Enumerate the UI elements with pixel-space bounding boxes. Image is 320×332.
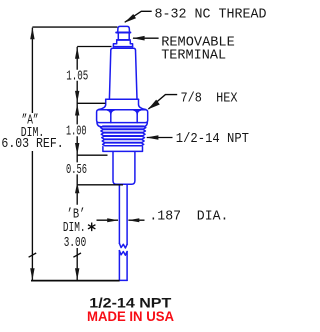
thread ridge 1	[101, 126, 146, 129]
svg-text:1.00: 1.00	[66, 124, 87, 140]
arrowhead B bottom	[75, 268, 79, 280]
rod lower right edge	[126, 252, 128, 281]
rod upper left edge	[118, 185, 120, 244]
B dimension vertical line	[76, 47, 78, 280]
arrowhead B top	[75, 182, 79, 193]
rod break zigzag lower	[119, 251, 127, 256]
rod upper right edge	[126, 185, 128, 245]
svg-text:6.03 REF.: 6.03 REF.	[1, 136, 63, 152]
A dimension vertical line	[31, 28, 33, 281]
extension line at terminal base y46.5	[77, 46, 111, 48]
bell flare left	[98, 99, 105, 109]
rod bottom edge	[119, 279, 127, 281]
arrowhead leader 8-32	[124, 14, 136, 23]
arrowhead .187 left	[107, 218, 118, 222]
extension line at hex seat y103	[77, 102, 105, 104]
svg-text:7/8 HEX: 7/8 HEX	[181, 91, 239, 107]
leader line 7/8 hex	[148, 95, 177, 109]
hex face line left	[110, 110, 112, 123]
svg-text:1.05: 1.05	[66, 69, 88, 85]
terminal lower ring	[113, 41, 132, 47]
arrowhead 1/2-14 npt	[146, 135, 158, 140]
svg-text:3.00: 3.00	[64, 235, 86, 251]
B dim break tick	[73, 253, 81, 257]
thread ridge 5	[102, 140, 144, 143]
arrowhead 7/8 hex	[148, 100, 160, 110]
thread ridge 2	[101, 130, 145, 133]
extension line top (A dim, terminal tip)	[32, 26, 117, 28]
A dim break tick	[29, 253, 37, 257]
hex face line right	[136, 110, 138, 123]
svg-text:MADE IN USA: MADE IN USA	[87, 308, 174, 324]
terminal cap bottom ring	[116, 32, 130, 34]
leader line .187 right	[128, 219, 144, 221]
arrowhead A bottom	[30, 268, 34, 280]
bell flare right	[139, 99, 146, 109]
terminal base flange bottom	[113, 46, 132, 48]
svg-text:DIM.: DIM.	[63, 220, 86, 236]
arrowhead 1.00 top	[75, 104, 79, 116]
arrowhead 1.05 bottom	[75, 91, 79, 103]
terminal neck ring	[118, 34, 129, 40]
arrowhead 1.00 bottom	[75, 143, 79, 155]
hex chamfer arc left face	[107, 110, 115, 114]
svg-text:8-32 NC THREAD: 8-32 NC THREAD	[155, 7, 267, 23]
hex 7/8 outline	[97, 110, 148, 123]
baseline at rod tip	[31, 280, 120, 282]
arrowhead 1.05 top	[75, 47, 79, 59]
thread ridge 4	[102, 136, 145, 139]
leader line 8-32	[125, 11, 152, 22]
unthreaded band below threads	[103, 147, 143, 152]
flange washer under hex	[97, 123, 147, 127]
terminal cap (8-32 threaded tip)	[118, 26, 130, 33]
extension line at thread end y155.2	[77, 154, 107, 156]
rod break zigzag upper	[119, 243, 127, 248]
arrowhead A top	[30, 27, 34, 39]
shell lower cylinder	[113, 152, 135, 185]
leader line .187 left	[97, 219, 119, 221]
extension line at shell bottom y184.8	[77, 184, 123, 186]
leader line removable terminal	[133, 37, 159, 39]
svg-text:.187 DIA.: .187 DIA.	[149, 209, 228, 225]
dim text asterisk star	[88, 223, 95, 232]
svg-text:0.56: 0.56	[66, 162, 87, 178]
arrowhead .187 right	[128, 218, 139, 222]
leader line 1/2-14 npt	[147, 137, 173, 139]
insulator body	[109, 48, 137, 99]
svg-text:1/2-14 NPT: 1/2-14 NPT	[176, 131, 249, 147]
thread ridge 3	[101, 133, 145, 136]
arrowhead removable terminal	[132, 36, 144, 41]
svg-text:TERMINAL: TERMINAL	[161, 48, 226, 64]
body step shoulder	[106, 98, 139, 100]
terminal neck bottom ring	[117, 39, 130, 41]
hex chamfer arc right face	[133, 110, 141, 114]
rod lower left edge	[118, 251, 120, 281]
thread ridge 6	[103, 143, 144, 146]
